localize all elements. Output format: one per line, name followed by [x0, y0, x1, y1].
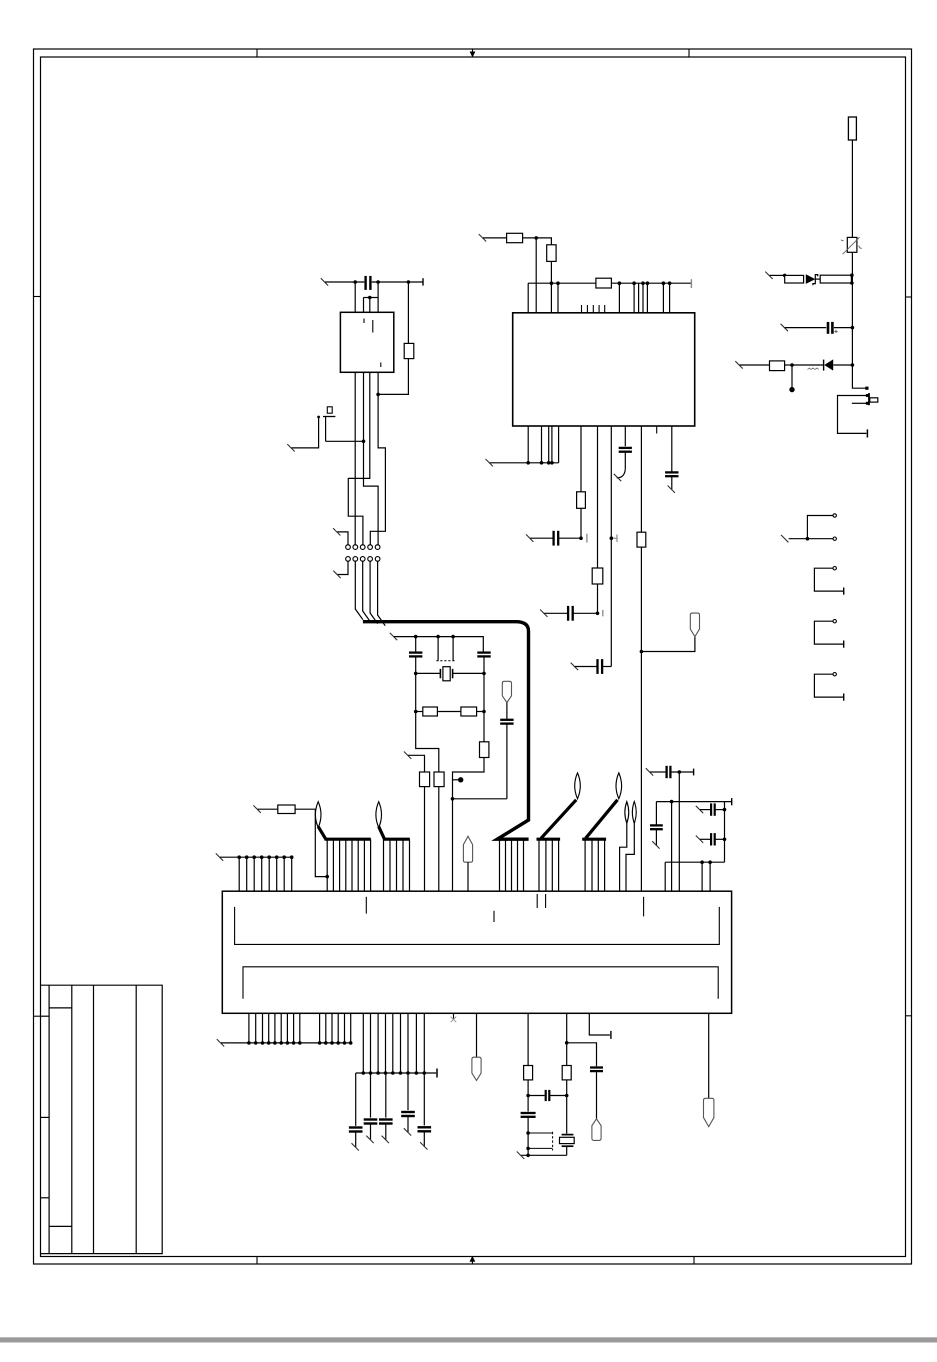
push button S1 base bar	[323, 416, 335, 418]
wire header row2 pin2 to bus	[355, 561, 363, 619]
capacitor C40	[349, 1126, 363, 1128]
wire C42 top	[385, 1073, 387, 1118]
wire J2 pin drop L14	[344, 1013, 346, 1043]
wire left group pin 5	[268, 857, 270, 891]
wire flag pair B jog	[626, 823, 634, 891]
wire C41 top	[370, 1073, 372, 1118]
wire bus e drop 4	[604, 839, 606, 891]
wire bus c drop 3	[511, 839, 513, 891]
net stub C40	[352, 1143, 359, 1150]
net stub IC bottom-left	[486, 459, 493, 466]
junction rail2 6	[399, 1071, 403, 1075]
net stub C22 row	[571, 663, 578, 670]
connector key tick 2	[493, 911, 495, 922]
connector key tick 5	[643, 897, 645, 917]
wire C40 stub	[355, 1132, 357, 1148]
jack pin square bottom	[866, 402, 869, 405]
jumper JP2 wiring	[814, 568, 843, 591]
wire IC top pin x663.4	[662, 283, 664, 313]
wire R8 to net	[580, 508, 582, 538]
power jack J5 terminal bar	[866, 429, 868, 437]
wire J2 pin drop L8	[293, 1013, 295, 1043]
terminal tick 581 net	[586, 534, 588, 543]
junction IC top rail a	[550, 281, 554, 285]
wire C31 right	[671, 771, 694, 773]
wire main vertical VIN rail	[852, 252, 867, 388]
wire 702 drop	[701, 862, 703, 891]
wire IC pin 641 upper	[640, 426, 642, 532]
wire xtal row left	[416, 672, 441, 674]
junction bottom-left rail 1	[247, 1041, 251, 1045]
wire IC pin 671 down	[671, 426, 673, 472]
wire far right drop	[708, 1013, 710, 1098]
bus b rail (thick)	[383, 838, 410, 841]
capacitor C21	[567, 606, 569, 621]
junction row1 rail bottom	[850, 281, 854, 285]
junction top rail pin4	[376, 280, 380, 284]
wire bus a drop 2	[332, 839, 334, 891]
border zone tick top-left	[256, 49, 258, 57]
wire 671 drop	[671, 802, 673, 892]
junction IC top rail c	[618, 281, 622, 285]
wire bus c drop 1	[499, 839, 501, 891]
capacitor C34	[710, 833, 712, 845]
wire U2 top rail right	[372, 281, 423, 283]
IC U1 short top stubs	[581, 305, 583, 313]
resistor R22 (row3)	[770, 361, 785, 371]
junction row3 testpoint node	[790, 363, 794, 367]
wire testpoint stem	[791, 365, 793, 387]
wire R row b	[437, 711, 461, 713]
wire bus c drop 2	[505, 839, 507, 891]
wire pin4 drop	[377, 282, 379, 312]
junction case top	[526, 1131, 530, 1135]
wire bus b drop 4	[402, 839, 404, 891]
junction bottom-left rail 13	[336, 1041, 340, 1045]
wire 679 drop	[678, 772, 680, 891]
jumper JP1 pin circle A	[833, 514, 836, 517]
wire rail801 corner down	[724, 802, 726, 863]
connector J1/J2 outer body	[222, 891, 731, 1013]
wire flag468 stem	[467, 862, 469, 891]
jumper JP3 wiring	[814, 621, 843, 644]
junction xtal rail a	[414, 635, 418, 639]
terminal bar IC top rail	[690, 279, 692, 288]
junction bottom-left rail 10	[318, 1041, 322, 1045]
curved net hook	[617, 468, 626, 478]
junction IC top rail h	[668, 281, 672, 285]
net stub row3	[735, 361, 742, 368]
wire rail2 left end drop	[355, 1073, 357, 1126]
connector J2 inner row	[243, 967, 718, 999]
wire IC top pin x647.4	[646, 283, 648, 313]
junction bottom-left rail 2	[254, 1041, 258, 1045]
wire IC top pin x669.6	[669, 283, 671, 313]
junction pin3 link	[368, 296, 372, 300]
bus d diagonal (thick)	[541, 800, 576, 839]
programming header J3 row2	[346, 557, 351, 562]
jumper JP3 terminal bar	[843, 641, 845, 648]
junction bottom-left rail 5	[273, 1041, 277, 1045]
wire bus c drop 5	[523, 839, 525, 891]
wire dashed-box pin a	[437, 637, 439, 661]
wire rail862	[665, 861, 724, 863]
wire xtal right drop	[483, 673, 485, 711]
terminal bar 589	[610, 1031, 612, 1039]
wire R20 to RV1	[851, 140, 853, 237]
net flag pair B	[632, 802, 636, 824]
wire J2 pin drop L1	[248, 1013, 250, 1043]
net flag (down) at 694.9	[690, 613, 699, 637]
wire VCC chain left	[483, 237, 507, 239]
net flag bus-e	[616, 773, 622, 799]
capacitor C12	[477, 651, 490, 653]
power jack J5 inner contact	[852, 402, 868, 404]
junction rail2 1	[362, 1071, 366, 1075]
junction bottom-left rail x541.5	[540, 461, 544, 465]
no-connect stub with x	[453, 1013, 455, 1019]
net flag pair A	[625, 802, 629, 824]
wire R3 bottom to pin4 net	[378, 359, 408, 395]
push button S1 cap	[327, 407, 332, 413]
capacitor C41	[364, 1118, 378, 1120]
wire C24 stub	[671, 476, 673, 489]
border zone tick right 1	[906, 296, 912, 298]
net stub C24	[668, 486, 675, 493]
net stub C34 row	[696, 836, 703, 843]
wire C43 stub	[407, 1116, 409, 1132]
wire J2 pin drop M2	[370, 1013, 372, 1073]
bus trunk (thick)	[363, 622, 529, 840]
wire 710 drop	[709, 862, 711, 891]
wire RTC left lower	[527, 1096, 529, 1112]
junction rail2 3	[376, 1071, 380, 1075]
wire left group pin 6	[276, 857, 278, 891]
junction row2 rail	[851, 326, 855, 330]
wire IC top rail right	[611, 282, 691, 284]
push button S1 leg	[325, 417, 327, 442]
wire J2 pin drop L4	[268, 1013, 270, 1043]
wire J2 pin drop M8	[415, 1013, 417, 1073]
wire RTC series cap right	[550, 1095, 567, 1097]
junction IC top rail e	[641, 281, 645, 285]
wire row1 left	[770, 274, 785, 276]
wire J2 pin drop L3	[262, 1013, 264, 1043]
wire C22 left	[575, 666, 597, 668]
net flag bus-d	[575, 773, 581, 799]
resistor R3 (right of U2)	[404, 343, 414, 358]
wire J2 pin drop L15	[350, 1013, 352, 1043]
capacitor C31	[665, 766, 667, 778]
capacitor C42	[379, 1118, 393, 1120]
wire C23 to hook	[624, 452, 626, 468]
resistor R8	[577, 492, 586, 509]
junction C33	[723, 808, 727, 812]
wire header row2 pin3 to bus	[363, 561, 371, 621]
junction rail862 a	[700, 860, 704, 864]
wire J2 pin drop M3	[377, 1013, 379, 1073]
junction rail2 9	[423, 1071, 427, 1075]
capacitor C10 plates (series, top rail)	[364, 276, 366, 290]
resistor R14 (vertical)	[480, 742, 489, 758]
wire bus-corner to IC pin line	[544, 612, 567, 614]
title block row divider col1 b	[41, 1116, 50, 1118]
wire flag pair A jog	[620, 823, 627, 891]
capacitor C20	[552, 531, 554, 546]
jack pin square top	[866, 394, 869, 397]
terminal tick 611 mid	[611, 535, 617, 543]
net stub crystal rail	[390, 633, 397, 640]
wire pin3 stub	[369, 298, 371, 313]
title block row divider col1 a	[41, 1015, 50, 1017]
junction row3 rail	[851, 363, 855, 367]
wire dashed-box pin b	[452, 637, 454, 661]
wire IC pin 581 down	[580, 426, 582, 492]
wire J2 pin drop M1	[362, 1013, 364, 1073]
terminal bar rail2	[436, 1069, 438, 1078]
wire J2 pin drop M7	[407, 1013, 409, 1073]
junction 452 distribution	[451, 797, 455, 801]
net stub bus-corner right wire	[540, 610, 547, 617]
wire R22 to node	[785, 364, 792, 366]
border zone tick left 1	[34, 296, 41, 298]
title block column line 3	[93, 985, 95, 1253]
wire R14 bottom jog	[453, 758, 485, 892]
wire R17 to bus a pin	[295, 809, 327, 876]
junction rail2 8	[415, 1071, 419, 1075]
jumper JP4 wiring	[814, 674, 843, 697]
net stub RTC gnd	[517, 1152, 524, 1159]
wire R row c	[477, 711, 484, 713]
junction RTC gnd	[526, 1154, 530, 1158]
crystal Y1 electrodes and body	[439, 669, 441, 678]
junction IC top rail b	[556, 281, 560, 285]
net stub header row2	[333, 571, 340, 578]
net flag up 596	[592, 1119, 601, 1141]
junction C47 tap	[565, 1041, 569, 1045]
resistor R21 (row1)	[785, 275, 804, 283]
resistor R19	[562, 1066, 571, 1080]
net stub header row1	[333, 528, 340, 535]
wire IC bottom-left rail	[490, 462, 559, 464]
junction row1 left	[783, 274, 787, 278]
wire R3 top	[407, 282, 409, 343]
wire J2 pin drop L6	[280, 1013, 282, 1043]
wire IC pin 611 down	[610, 426, 612, 667]
net stub VCC chain	[479, 234, 486, 241]
wire bus a drop 8	[370, 839, 372, 891]
wire flag to C13	[506, 703, 508, 720]
wire row2 to C30	[785, 327, 826, 329]
junction square at jack feed	[865, 387, 868, 390]
bus a rail (thick)	[325, 838, 371, 841]
junction JP1	[806, 537, 810, 541]
wire bottom-left rail	[221, 1042, 351, 1044]
wire J2 pin drop L12	[331, 1013, 333, 1043]
wire C20 right	[559, 537, 581, 539]
capacitor C22	[596, 659, 598, 674]
wire RTC series cap left	[528, 1095, 545, 1097]
title block row divider col2 bottom	[49, 1225, 72, 1227]
title block column line 1	[48, 985, 50, 1253]
wire S1 to U2 pin2 net	[326, 440, 364, 442]
wire pin2-pin4 link	[364, 297, 379, 299]
wire flag476 stem	[476, 1013, 478, 1057]
wire xtal row right	[453, 672, 484, 674]
border zone tick bottom-right	[693, 1257, 695, 1265]
junction bottom-left rail 3	[261, 1041, 265, 1045]
net stub C33 row	[696, 806, 703, 813]
crystal case outline (part dashed)	[528, 1133, 553, 1148]
wire C34 right	[715, 838, 724, 840]
page footer gray bar	[0, 1337, 937, 1342]
wire left group pin 3	[253, 857, 255, 891]
wire IC pin 597 down	[597, 426, 599, 568]
wire test point stub	[453, 779, 459, 781]
junction RTC right	[565, 1094, 569, 1098]
test point TP1 (filled)	[789, 387, 794, 392]
junction 611 mid	[610, 536, 614, 540]
junction 641 flag tap	[640, 650, 644, 654]
wire bus a drop 5	[351, 839, 353, 891]
wire net stub to header pin1	[337, 532, 348, 545]
wire C13 down	[506, 724, 508, 799]
junction top rail pin1	[353, 280, 357, 284]
wire IC top rail left	[528, 282, 596, 284]
connector key tick 3	[536, 894, 538, 908]
junction bottom-left rail 15	[349, 1041, 353, 1045]
terminal bar C31 net	[693, 769, 695, 776]
junction bottom-left rail x551.9	[550, 461, 554, 465]
capacitor C45 (series)	[545, 1090, 547, 1101]
net stub S1 left	[287, 444, 294, 451]
terminal tick 597 net	[602, 610, 604, 616]
net flag (down) 708	[704, 1098, 714, 1126]
junction bottom-left rail 14	[343, 1041, 347, 1045]
wire RTC right drop	[566, 1096, 568, 1134]
capacitor C33	[710, 803, 712, 815]
junction left group pin 7	[282, 855, 286, 859]
wire IC top pin x634.1	[633, 283, 635, 313]
wire bus c drop 4	[517, 839, 519, 891]
junction C31 net	[678, 770, 682, 774]
wire header row2 pin5 to bus	[378, 561, 386, 625]
wire bus e drop 1	[584, 839, 586, 891]
connector J1 inner row	[235, 907, 720, 945]
wire J2 pin drop L7	[286, 1013, 288, 1043]
wire D1 to L1	[815, 278, 820, 280]
junction 581 net	[579, 536, 583, 540]
wire IC top pin x619.4	[618, 283, 620, 313]
bus a diagonal (thick)	[318, 827, 326, 840]
junction bottom-left rail 4	[267, 1041, 271, 1045]
capacitor C13	[500, 719, 513, 721]
wire R6 to pin rail	[550, 261, 552, 283]
net stub C44	[420, 1142, 427, 1149]
wire J2 pin 589 jog	[589, 1013, 610, 1035]
wire IC top pin x558.0	[557, 283, 559, 313]
wire J2 pin drop L11	[325, 1013, 327, 1043]
junction xtal right	[482, 672, 486, 676]
wire C12 bottom	[483, 657, 485, 674]
capacitor C11	[409, 651, 422, 653]
resistor R9	[592, 568, 603, 584]
net stub R16 row	[404, 752, 411, 759]
wire left group pin 2	[246, 857, 248, 891]
wire bus d drop 1	[538, 839, 540, 891]
jumper JP4 pin circle	[833, 673, 836, 676]
resistor R13	[461, 707, 477, 716]
resistor R12	[423, 707, 438, 716]
net stub row1	[765, 272, 772, 279]
wire IC bottom pin x548.7	[548, 426, 550, 463]
power jack J5 outline	[838, 396, 868, 434]
wire IC top pin x528.2	[527, 283, 529, 313]
wire R18 to node	[527, 1080, 529, 1096]
wire J2 pin drop M4	[385, 1013, 387, 1073]
wire C43 top	[407, 1073, 409, 1110]
junction xtal rail b	[436, 635, 440, 639]
wire bus b drop 5	[409, 839, 411, 891]
border centre arrow top	[472, 49, 474, 55]
test point TP2 (filled)	[458, 777, 463, 782]
wire net stub to header row2 pin1	[338, 561, 349, 574]
terminal bar rail801	[731, 798, 733, 805]
jumper JP3 pin circle	[833, 620, 836, 623]
net stub C31 row	[646, 768, 653, 775]
junction IC top rail g	[662, 281, 666, 285]
resistor R15 (vertical pair left)	[420, 772, 430, 787]
resistor R17	[278, 805, 295, 814]
diode D2 (pointing left)	[823, 360, 825, 371]
wire C11 top	[415, 637, 417, 653]
wire C46 down	[527, 1117, 529, 1156]
wire C44 stub	[423, 1131, 425, 1146]
junction R17 bus a	[325, 875, 329, 879]
wire pin2 stub	[363, 298, 365, 313]
border zone tick right 2	[906, 1015, 912, 1017]
resistor R20 (top right vertical)	[848, 117, 856, 140]
junction RTC left	[526, 1094, 530, 1098]
junction rail2 4	[384, 1071, 388, 1075]
bus d rail (thick)	[537, 838, 561, 841]
wire C30 to rail	[834, 327, 852, 329]
net stub R17 chain	[253, 805, 260, 812]
resistor R18	[524, 1066, 533, 1080]
wire J2 pin drop L5	[274, 1013, 276, 1043]
wire C32 gnd branch	[655, 802, 657, 825]
varistor RV1 diagonal stroke	[841, 237, 862, 254]
varistor RV1 body	[847, 237, 857, 252]
net flag bus-a	[315, 802, 321, 828]
net stub C20 row	[526, 534, 533, 541]
wire IC top pin x551.4	[550, 283, 552, 313]
bus e diagonal (thick)	[586, 800, 618, 839]
net stub U2 top rail	[321, 278, 328, 285]
wire bus d drop 2	[545, 839, 547, 891]
dashed shield line	[436, 660, 455, 662]
capacitor C30 polarized plates	[827, 322, 830, 334]
wire bus e drop 3	[597, 839, 599, 891]
junction IC top rail d	[632, 281, 636, 285]
junction pin4 net	[376, 393, 380, 397]
wire left group pin 7	[283, 857, 285, 891]
junction rail801 671	[670, 800, 674, 804]
junction top rail R3 tap	[407, 280, 411, 284]
junction 597 net	[596, 612, 600, 616]
wire 665 drop	[664, 862, 666, 891]
wire flag tap	[641, 637, 695, 652]
